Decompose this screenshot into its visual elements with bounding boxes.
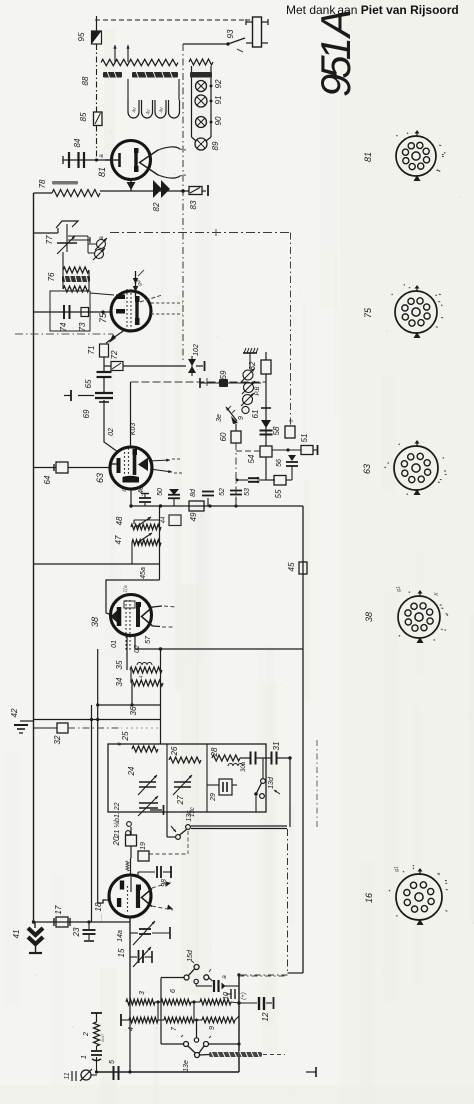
svg-text:72: 72	[110, 350, 119, 359]
svg-text:2: 2	[83, 1032, 90, 1037]
resistor 71	[100, 344, 109, 357]
switch 93	[183, 43, 228, 45]
svg-text:75: 75	[98, 312, 108, 323]
coil 25	[132, 746, 158, 752]
svg-text:5: 5	[109, 1060, 116, 1064]
wire to 82/83	[100, 190, 189, 192]
svg-text:26: 26	[170, 746, 179, 756]
capacitor 15A	[130, 932, 138, 934]
speaker arrows 41	[32, 920, 35, 923]
main HT vertical x290	[290, 374, 292, 426]
dash-dot x317	[316, 740, 318, 830]
socket 38	[398, 596, 440, 638]
trimmer 24b	[139, 802, 158, 804]
svg-text:74: 74	[59, 322, 68, 331]
coil 26	[169, 757, 201, 763]
resistor 44	[169, 515, 181, 526]
oscillator coil 76	[63, 267, 89, 273]
svg-text:78: 78	[38, 179, 47, 188]
dash y976	[238, 975, 287, 977]
wire box top to tube	[90, 293, 114, 295]
resistor 2	[96, 1013, 98, 1022]
svg-text:89: 89	[211, 141, 220, 150]
svg-text:47: 47	[114, 535, 123, 544]
svg-text:3: 3	[139, 991, 146, 995]
det line y451	[236, 450, 260, 452]
wire bus to trimmer 77	[34, 232, 59, 234]
svg-text:g1: g1	[394, 866, 400, 872]
svg-text:53: 53	[244, 488, 251, 496]
svg-text:····: ····	[99, 914, 105, 922]
capacitor 52	[235, 498, 237, 506]
svg-text:g4: g4	[137, 280, 143, 286]
socket 63	[394, 446, 438, 490]
capacitor 46	[144, 503, 146, 506]
padder 29	[207, 784, 219, 786]
line a	[68, 239, 90, 241]
capacitor 5	[113, 1066, 115, 1080]
resistor 83	[181, 189, 185, 193]
resistor 60	[231, 431, 241, 443]
resistor 49	[189, 501, 204, 511]
svg-text:57: 57	[145, 635, 152, 644]
dash link to 19	[187, 831, 189, 854]
svg-text:48: 48	[115, 516, 124, 525]
svg-text:a: a	[99, 236, 105, 240]
switch 13c	[166, 812, 168, 837]
tube 16	[109, 875, 151, 917]
main HT vertical x303	[302, 506, 304, 973]
svg-text:24: 24	[127, 766, 136, 776]
capacitor 8d	[207, 498, 209, 506]
svg-text:951 A: 951 A	[312, 9, 359, 97]
ground bus y1072	[97, 1071, 239, 1073]
svg-text:35: 35	[115, 660, 124, 669]
line y383 with cap 57	[200, 382, 261, 384]
grid stopper squiggle	[130, 858, 132, 876]
tube 81	[112, 141, 151, 180]
tuning indicator arrows 3e	[226, 407, 237, 421]
lamp 92	[196, 81, 207, 92]
svg-text:12: 12	[261, 1012, 270, 1021]
lamp 90	[196, 117, 207, 128]
transformer rails	[160, 649, 162, 705]
svg-text:1(a: 1(a	[123, 585, 129, 592]
resistor 45	[299, 562, 307, 574]
secondary winding loops	[128, 100, 139, 118]
svg-text:16: 16	[364, 893, 374, 903]
terminal right	[306, 1071, 316, 1073]
thermistor 102	[188, 359, 196, 366]
capacitor 65	[97, 371, 112, 373]
wire to tube 38 grid	[106, 580, 160, 615]
fuse 95	[96, 16, 98, 31]
wire y564	[34, 563, 160, 565]
svg-text:4x47: 4x47	[100, 1033, 105, 1042]
wire 02 to tube 63	[103, 400, 105, 438]
svg-text:10: 10	[223, 992, 230, 1000]
svg-text:62: 62	[248, 361, 257, 370]
capacitor 84	[63, 159, 112, 161]
svg-text:02: 02	[108, 428, 115, 436]
svg-text:13d: 13d	[268, 776, 275, 789]
svg-text:65: 65	[84, 379, 93, 388]
tube 75 heater dashes	[151, 302, 183, 304]
HT rail y719	[34, 719, 161, 721]
long vertical x97.7	[97, 649, 99, 903]
svg-text:29: 29	[210, 793, 217, 802]
AF transformer 35	[130, 667, 162, 673]
vertical x239	[238, 975, 240, 1072]
pot 47	[132, 540, 161, 546]
cathode line	[129, 918, 131, 1002]
svg-text:54: 54	[247, 454, 256, 463]
tube 16 heater dashes	[152, 882, 171, 888]
svg-text:85: 85	[79, 112, 88, 121]
resistor 78	[34, 192, 53, 194]
svg-text:44: 44	[161, 516, 167, 523]
antenna jack 1	[81, 1070, 91, 1080]
svg-text:28: 28	[210, 747, 219, 757]
svg-text:71: 71	[87, 346, 96, 355]
shielded lead	[209, 1052, 262, 1057]
svg-text:58: 58	[272, 426, 281, 435]
band switch 13e	[184, 1042, 189, 1047]
tube 81 grid lead with arrow	[130, 180, 132, 192]
svg-text:92: 92	[214, 79, 223, 88]
ground hatch	[243, 352, 257, 354]
capacitor 74	[34, 311, 112, 313]
socket 16	[396, 874, 442, 920]
svg-text:a: a	[222, 975, 228, 979]
cathode lead d	[130, 489, 132, 506]
svg-text:93: 93	[226, 29, 235, 38]
resistor 17	[56, 917, 68, 927]
vibration contact 82	[153, 180, 162, 198]
svg-text:9: 9	[238, 416, 245, 420]
svg-text:49: 49	[189, 512, 198, 521]
svg-text:69: 69	[82, 409, 91, 418]
tube 75 cathode lead arrow	[106, 329, 126, 343]
svg-text:64: 64	[43, 475, 52, 484]
resistor 58	[285, 426, 295, 438]
resistor 20	[130, 827, 132, 835]
svg-text:95: 95	[77, 32, 86, 41]
interconnect verticals	[129, 918, 131, 1072]
wire: mains dashed line	[95, 19, 250, 21]
svg-text:15d: 15d	[187, 949, 194, 962]
dial lamp chain rails	[191, 66, 193, 137]
svg-text:59: 59	[219, 370, 228, 379]
svg-text:88: 88	[81, 76, 90, 85]
svg-text:20: 20	[112, 836, 121, 846]
svg-text:1: 1	[81, 1055, 88, 1059]
capacitor 53	[259, 479, 275, 481]
svg-text:60: 60	[219, 432, 228, 441]
svg-text:30a: 30a	[241, 761, 247, 772]
long dash-dot boundary	[110, 232, 291, 234]
svg-text:.46: .46	[138, 486, 145, 496]
svg-text:98: 98	[161, 879, 168, 887]
caps 30 31	[240, 757, 251, 759]
capacitor 98	[137, 872, 139, 877]
mains plug 93	[253, 17, 262, 47]
heater supply arrows	[114, 45, 116, 62]
svg-text:6: 6	[170, 989, 177, 993]
svg-text:63: 63	[95, 473, 105, 483]
svg-text:27: 27	[176, 795, 185, 805]
resistor 73	[81, 308, 89, 317]
svg-text:36: 36	[129, 706, 138, 715]
shield boundary dash y334	[15, 333, 113, 335]
padder trimmers	[68, 235, 88, 237]
svg-text:38: 38	[364, 612, 374, 622]
resistor 19	[138, 851, 149, 861]
capacitor 1	[96, 1046, 98, 1050]
ground 42	[20, 720, 34, 722]
resistor 54	[260, 446, 272, 457]
svg-text:K03: K03	[130, 423, 137, 436]
svg-text:9: 9	[209, 1026, 216, 1030]
resistor 85	[94, 112, 103, 126]
svg-text:61: 61	[251, 410, 260, 419]
svg-text:a: a	[436, 872, 442, 875]
anode feed line y649	[135, 648, 303, 650]
svg-text:8d: 8d	[190, 488, 197, 497]
svg-text:3e: 3e	[216, 414, 223, 422]
svg-text:51: 51	[300, 434, 309, 443]
socket 75	[395, 291, 437, 333]
svg-text:14a: 14a	[117, 930, 124, 942]
chassis double bus y827	[191, 825, 287, 827]
capacitor 61	[265, 374, 267, 446]
resistor row 4 7 9	[120, 1014, 122, 1026]
resistor 72	[104, 365, 111, 367]
wire y382	[131, 381, 267, 383]
svg-text:56: 56	[276, 459, 283, 467]
svg-text:0: 0	[289, 419, 295, 422]
terminal at box bottom	[150, 809, 162, 811]
heater winding 88	[101, 59, 178, 65]
svg-text:(+): (+)	[241, 992, 247, 1000]
svg-text:82: 82	[152, 202, 161, 211]
svg-text:4v: 4v	[146, 109, 152, 115]
capacitor 23	[88, 922, 90, 929]
svg-text:77: 77	[45, 235, 54, 244]
svg-text:18: 18	[94, 902, 103, 911]
svg-text:76: 76	[47, 272, 56, 281]
capacitor 15b	[161, 977, 184, 979]
coil 28	[212, 755, 240, 761]
tube 38	[111, 595, 152, 636]
svg-text:91: 91	[214, 96, 223, 105]
tube 63 output arrows	[149, 460, 170, 461]
svg-text:52: 52	[219, 488, 226, 496]
svg-text:4: 4	[139, 675, 145, 678]
svg-text:83: 83	[189, 200, 198, 209]
svg-text:4v: 4v	[132, 107, 138, 113]
node 75 junction	[101, 310, 104, 313]
trimmer 27	[174, 781, 191, 783]
trimmer 24	[139, 781, 156, 783]
svg-text:84: 84	[73, 138, 82, 147]
svg-text:90: 90	[214, 116, 223, 125]
svg-text:19: 19	[140, 842, 147, 850]
wire y705	[98, 704, 161, 706]
volume pot 48	[159, 506, 161, 580]
svg-text:32: 32	[53, 735, 62, 744]
grid line K03	[130, 382, 132, 448]
tube 38 heater dashes	[153, 606, 163, 607]
svg-text:34: 34	[115, 677, 124, 686]
long vertical x91.5	[91, 705, 93, 922]
lamp 91	[195, 95, 207, 107]
resistor 55	[265, 457, 267, 480]
svg-text:g1: g1	[396, 586, 402, 592]
capacitor 69	[95, 392, 113, 394]
svg-text:15: 15	[117, 948, 126, 957]
svg-text:50: 50	[157, 488, 164, 496]
svg-text:45: 45	[287, 562, 296, 571]
svg-text:55: 55	[274, 489, 283, 498]
capacitor 56	[288, 455, 296, 461]
polarity mark	[230, 989, 232, 999]
wire y922	[34, 921, 131, 923]
tube 75 top cap	[135, 271, 137, 298]
tuner shield box	[108, 744, 266, 812]
band switch 15d	[194, 965, 199, 970]
svg-text:01: 01	[111, 640, 118, 648]
svg-text:31: 31	[272, 742, 281, 751]
AF transformer 34	[131, 680, 163, 686]
svg-text:13c: 13c	[186, 810, 193, 822]
resistor 64	[34, 467, 57, 469]
svg-text:e: e	[117, 742, 123, 746]
svg-text:25: 25	[121, 731, 130, 741]
svg-text:41: 41	[12, 930, 21, 939]
shield box 74/73	[50, 291, 90, 331]
svg-text:23: 23	[72, 927, 81, 937]
capacitor 12	[239, 1002, 257, 1004]
svg-text:21 ¼b1. 22: 21 ¼b1. 22	[114, 802, 121, 838]
left bus wire	[33, 193, 35, 922]
resistor 62	[261, 360, 271, 374]
svg-text:81: 81	[97, 167, 107, 177]
svg-text:38: 38	[90, 617, 100, 627]
avc dash vertical 236	[235, 443, 237, 506]
trimmer 77	[56, 221, 78, 228]
svg-text:73: 73	[78, 322, 87, 331]
svg-text:42: 42	[10, 708, 19, 717]
leads 01 02	[126, 636, 128, 670]
svg-text:102: 102	[193, 344, 200, 356]
svg-text:17: 17	[54, 905, 63, 914]
shield dash-dot vertical line	[182, 44, 184, 360]
tube 75	[111, 291, 151, 331]
svg-text:45a: 45a	[140, 567, 147, 579]
svg-text:4v: 4v	[159, 107, 165, 113]
trimmer PB	[244, 383, 254, 393]
tube 81 diode horn	[140, 150, 159, 175]
resistor 32	[34, 727, 58, 729]
capacitor 50	[173, 499, 175, 506]
svg-text:P.B: P.B	[255, 387, 261, 396]
svg-text:11: 11	[64, 1072, 71, 1079]
resistor 51	[301, 446, 313, 455]
svg-text:63: 63	[362, 464, 372, 474]
svg-text:4: 4	[128, 1027, 135, 1031]
lamp 89	[195, 138, 207, 150]
svg-text:75: 75	[363, 307, 373, 318]
socket 81	[396, 136, 436, 176]
resistor row 3 6 10	[126, 999, 155, 1005]
svg-text:13e: 13e	[183, 1060, 190, 1072]
trimmer 59	[243, 370, 253, 380]
svg-text:7: 7	[171, 1026, 178, 1031]
svg-text:81: 81	[363, 152, 373, 162]
tube 63	[110, 447, 152, 489]
main AVC line y506	[131, 505, 303, 507]
switch 13d	[262, 758, 264, 778]
